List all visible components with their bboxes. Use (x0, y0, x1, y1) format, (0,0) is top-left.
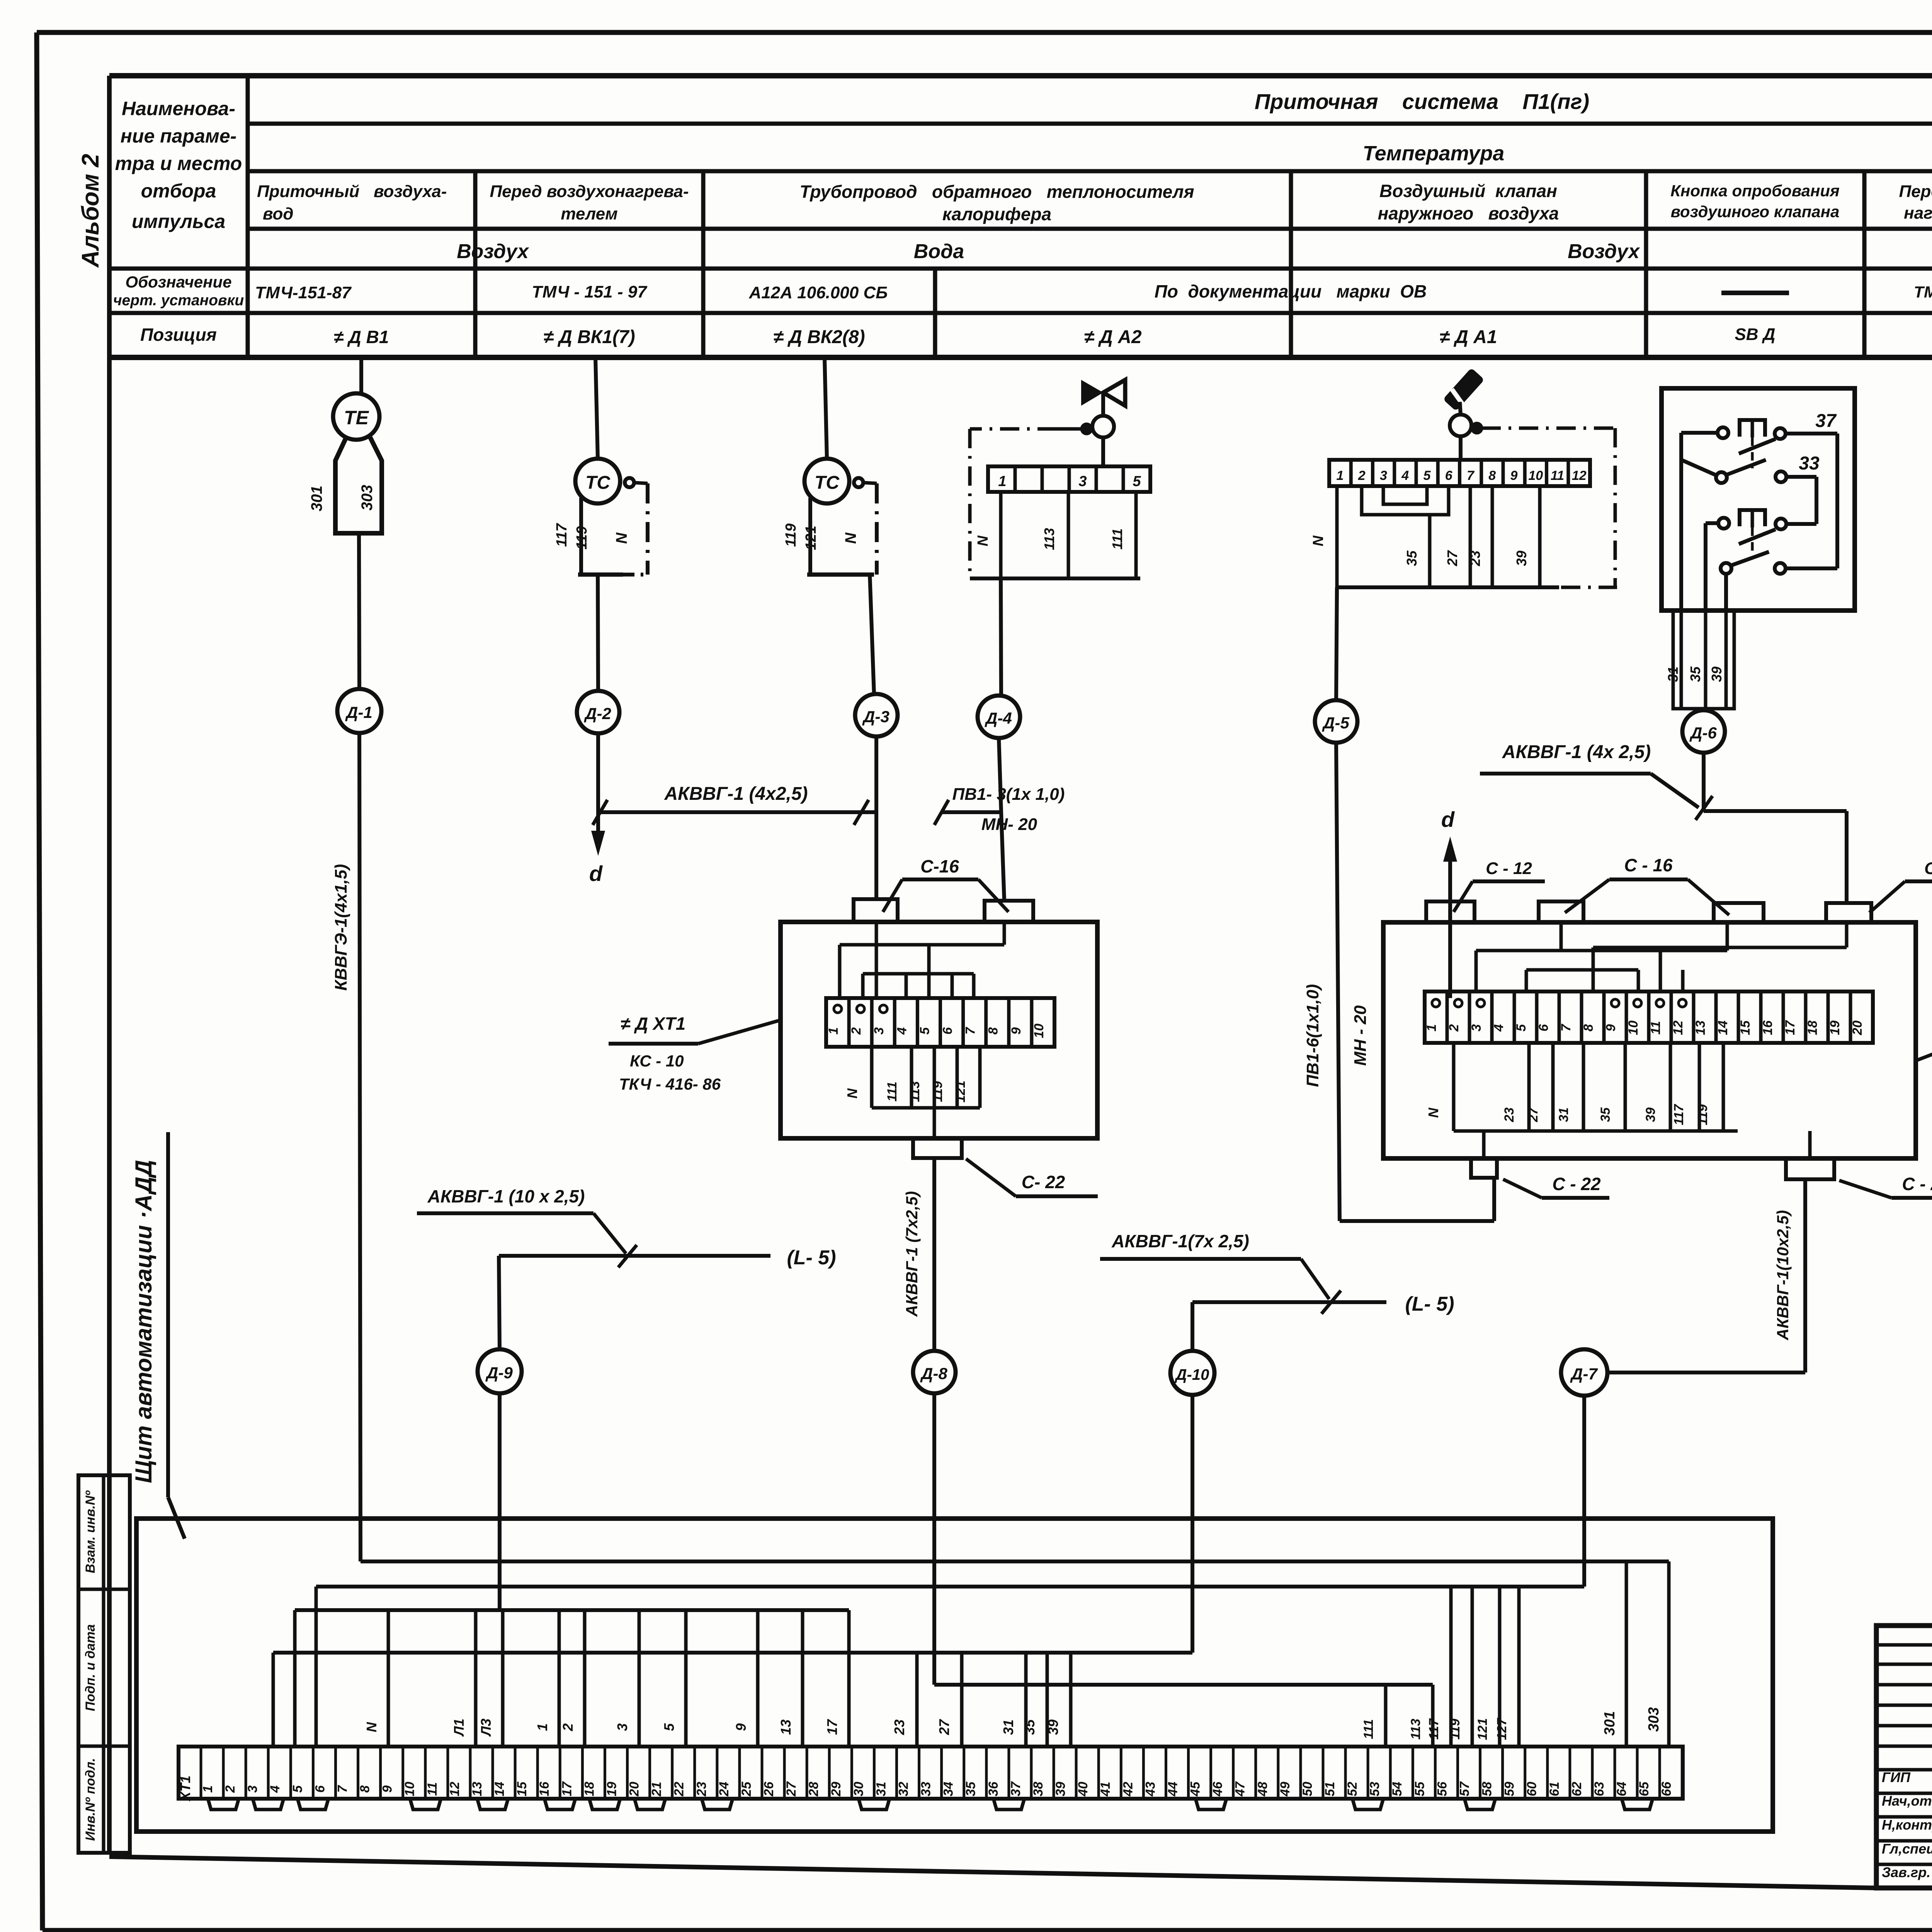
seal D-1 (337, 689, 381, 733)
svg-text:10: 10 (1032, 1024, 1046, 1038)
svg-text:59: 59 (1502, 1782, 1517, 1796)
label C-16 (1565, 855, 1729, 915)
svg-text:46: 46 (1211, 1781, 1225, 1797)
table column headers (257, 177, 1932, 225)
TC2 N line (807, 478, 877, 575)
svg-text:47: 47 (1233, 1781, 1248, 1797)
svg-text:ТМЧ-151-87: ТМЧ-151-87 (255, 283, 352, 302)
svg-text:13: 13 (470, 1782, 485, 1796)
svg-text:10: 10 (1626, 1020, 1641, 1035)
svg-text:39: 39 (1053, 1782, 1068, 1796)
svg-text:Д-2: Д-2 (584, 704, 611, 723)
svg-text:14: 14 (492, 1782, 507, 1796)
svg-text:27: 27 (1526, 1107, 1541, 1122)
svg-text:Д-6: Д-6 (1689, 724, 1717, 742)
svg-text:нагревателем: нагревателем (1904, 204, 1932, 223)
svg-text:Л3: Л3 (478, 1719, 494, 1737)
table medium row (457, 240, 1932, 263)
svg-text:N: N (1310, 535, 1327, 546)
svg-text:N: N (364, 1722, 379, 1732)
svg-text:Зав.гр.: Зав.гр. (1882, 1864, 1930, 1880)
svg-text:23: 23 (891, 1719, 907, 1735)
wire D-5 strip to seal (1336, 587, 1337, 700)
seal D-10 (1170, 1351, 1214, 1395)
inner frame left line (107, 76, 112, 1855)
seal D-9 (478, 1349, 522, 1393)
svg-text:МН - 20: МН - 20 (1351, 1005, 1370, 1066)
svg-text:ПВ1-6(1х1,0): ПВ1-6(1х1,0) (1303, 984, 1322, 1087)
XT1 wires below terminals (844, 1047, 980, 1138)
svg-text:Кнопка опробования: Кнопка опробования (1670, 182, 1840, 200)
svg-text:50: 50 (1300, 1782, 1315, 1796)
svg-text:воздушного клапана: воздушного клапана (1671, 202, 1840, 221)
svg-text:отбора: отбора (141, 180, 216, 202)
svg-text:56: 56 (1435, 1781, 1449, 1796)
XT1 designation label (609, 1014, 781, 1093)
inner frame bottom line (109, 1857, 1876, 1888)
svg-text:20: 20 (1850, 1020, 1865, 1036)
svg-text:АКВВГ-1 (7х2,5): АКВВГ-1 (7х2,5) (903, 1191, 921, 1317)
cable AKVVG-1(10x2,5) label left (417, 1186, 637, 1267)
svg-text:53: 53 (1367, 1782, 1382, 1796)
svg-text:1: 1 (201, 1786, 215, 1793)
svg-text:ПВ1- 3(1х 1,0): ПВ1- 3(1х 1,0) (952, 785, 1065, 804)
svg-text:7: 7 (1467, 468, 1475, 483)
svg-text:119: 119 (574, 526, 590, 550)
svg-text:(L- 5): (L- 5) (1405, 1293, 1454, 1315)
junction box XT1 (781, 922, 1097, 1138)
svg-text:Д-5: Д-5 (1322, 714, 1349, 732)
svg-text:23: 23 (694, 1782, 709, 1797)
XT1 internal jumpers (840, 922, 1004, 998)
svg-text:8: 8 (358, 1785, 372, 1793)
svg-text:30: 30 (851, 1782, 866, 1796)
wire bus D-9 (295, 1394, 849, 1747)
svg-text:3: 3 (1380, 468, 1387, 483)
svg-text:301: 301 (1602, 1711, 1618, 1735)
dash-dot boundary D-4 (970, 424, 1091, 578)
seal D-6 (1682, 710, 1725, 753)
svg-text:9: 9 (380, 1785, 395, 1793)
svg-text:31: 31 (874, 1782, 888, 1796)
damper drive flag (1443, 368, 1485, 415)
svg-text:39: 39 (1709, 667, 1725, 682)
svg-text:41: 41 (1098, 1782, 1113, 1797)
svg-text:58: 58 (1480, 1782, 1495, 1796)
cable AKVVG-1(7x2,5) label D-10 (1100, 1231, 1341, 1314)
svg-text:1: 1 (826, 1027, 841, 1035)
svg-text:20: 20 (627, 1782, 642, 1797)
valve symbol D-4 (1081, 380, 1125, 416)
valve actuator circle (1092, 416, 1114, 437)
svg-text:23: 23 (1467, 551, 1483, 566)
svg-text:КВВГЭ-1(4х1,5): КВВГЭ-1(4х1,5) (332, 864, 350, 991)
wire bus D-1 (301/303) (361, 1561, 1669, 1747)
wire D-6 to XT2 (1704, 753, 1847, 901)
lower push contact (1718, 510, 1786, 558)
cable line PV1-3 (934, 785, 1065, 834)
push-button box (1662, 388, 1855, 611)
svg-text:37: 37 (1815, 411, 1837, 431)
svg-text:1: 1 (1337, 468, 1344, 483)
svg-text:2: 2 (223, 1785, 238, 1793)
svg-text:26: 26 (762, 1781, 776, 1797)
D-5 strip wires down (1310, 486, 1559, 587)
svg-text:113: 113 (908, 1081, 922, 1102)
svg-text:Щит автоматизации ·АДД: Щит автоматизации ·АДД (131, 1160, 156, 1483)
svg-text:121: 121 (953, 1081, 968, 1103)
svg-text:29: 29 (829, 1782, 844, 1797)
wire TC1 to D-2 (598, 575, 598, 691)
cable AKVVG-1(4x2,5) to D-6 (1480, 742, 1713, 820)
svg-text:19: 19 (1828, 1020, 1842, 1035)
title block signature grid (1876, 1626, 1932, 1888)
wire from table to TE (359, 357, 363, 394)
wire D-4 to XT1 (999, 739, 1004, 900)
svg-text:35: 35 (964, 1781, 978, 1796)
svg-text:≠ Д ВК1(7): ≠ Д ВК1(7) (543, 327, 635, 347)
svg-text:Позиция: Позиция (140, 325, 217, 345)
svg-text:27: 27 (1444, 550, 1460, 566)
table installation-drawing row (255, 281, 1932, 302)
svg-text:301: 301 (308, 486, 325, 512)
svg-text:16: 16 (537, 1781, 552, 1796)
svg-text:7: 7 (963, 1026, 978, 1034)
wire bus D-10 (273, 1395, 1192, 1747)
svg-text:ТС: ТС (815, 473, 840, 493)
svg-text:23: 23 (1502, 1107, 1517, 1122)
svg-text:33: 33 (919, 1782, 934, 1796)
svg-text:119: 119 (930, 1081, 945, 1102)
svg-text:127: 127 (1495, 1718, 1509, 1740)
XT2 designation label (1916, 996, 1932, 1076)
svg-text:С- 22: С- 22 (1022, 1172, 1065, 1192)
XT2 internal jumpers (1476, 922, 1847, 992)
svg-text:5: 5 (917, 1027, 932, 1034)
wire D-3 to box XT1 (874, 736, 878, 900)
svg-text:43: 43 (1143, 1782, 1158, 1797)
svg-text:Наименова-: Наименова- (122, 98, 235, 119)
svg-text:119: 119 (1448, 1719, 1463, 1740)
svg-text:2: 2 (1358, 468, 1366, 483)
svg-text:С - 12: С - 12 (1924, 859, 1932, 878)
svg-text:14: 14 (1716, 1020, 1730, 1035)
svg-text:117: 117 (1672, 1104, 1686, 1125)
svg-text:тра и место: тра и место (115, 153, 242, 174)
svg-text:3: 3 (1469, 1024, 1484, 1031)
svg-text:25: 25 (739, 1781, 754, 1797)
svg-text:28: 28 (806, 1782, 821, 1797)
cable line AKVVG-1(4x2,5) (593, 784, 875, 825)
svg-text:38: 38 (1031, 1782, 1046, 1796)
sensor TC1 (575, 459, 620, 503)
svg-text:N: N (844, 1088, 860, 1099)
svg-text:С-16: С-16 (920, 856, 959, 876)
svg-text:(L- 5): (L- 5) (787, 1247, 836, 1269)
svg-text:SВ Д: SВ Д (1735, 325, 1775, 344)
svg-text:3: 3 (872, 1027, 886, 1034)
XT2 bottom glands C-22 (1471, 1158, 1932, 1198)
svg-text:ТЕ: ТЕ (344, 407, 369, 429)
svg-text:39: 39 (1045, 1719, 1061, 1735)
svg-text:телем: телем (561, 204, 617, 223)
svg-text:1: 1 (1424, 1024, 1439, 1032)
svg-text:Нач,отд.: Нач,отд. (1882, 1793, 1932, 1809)
d marker arrow into XT2 (1441, 807, 1457, 998)
svg-text:31: 31 (1000, 1719, 1016, 1735)
svg-text:37: 37 (1009, 1781, 1023, 1796)
svg-text:49: 49 (1278, 1782, 1293, 1797)
svg-text:17: 17 (1783, 1020, 1798, 1035)
wire bus D-8 (934, 1394, 1433, 1747)
svg-text:Гл,спец,: Гл,спец, (1882, 1841, 1932, 1857)
svg-text:6: 6 (1445, 468, 1453, 483)
(L-5) line 1 (499, 1247, 836, 1269)
svg-text:N: N (1425, 1107, 1441, 1118)
label C-12 left (1454, 859, 1545, 912)
TC2 sensor wires (783, 498, 819, 575)
svg-text:С - 12: С - 12 (1486, 859, 1532, 878)
TC1 N line (578, 478, 648, 575)
svg-text:44: 44 (1165, 1782, 1180, 1797)
svg-text:16: 16 (1760, 1020, 1775, 1035)
svg-text:4: 4 (268, 1785, 282, 1793)
svg-text:ТМЧ - 142- 87: ТМЧ - 142- 87 (1914, 283, 1932, 301)
svg-text:15: 15 (515, 1781, 529, 1796)
svg-text:Температура: Температура (1363, 142, 1505, 165)
seal D-2 (577, 691, 619, 733)
seal D-3 (855, 694, 898, 736)
svg-text:11: 11 (425, 1782, 440, 1796)
svg-text:21: 21 (650, 1782, 664, 1797)
svg-text:42: 42 (1121, 1782, 1135, 1797)
svg-text:d: d (1441, 807, 1455, 832)
wire from table to TC1 (595, 357, 598, 459)
svg-text:2: 2 (849, 1027, 864, 1035)
svg-text:Подп. и дата: Подп. и дата (83, 1624, 98, 1711)
svg-text:ТКЧ - 416- 86: ТКЧ - 416- 86 (619, 1075, 721, 1093)
svg-text:Приточная система П1(пг): Приточная система П1(пг) (1255, 89, 1589, 114)
sensor TE (333, 393, 379, 440)
D-4 strip wires down (970, 492, 1140, 578)
svg-text:45: 45 (1188, 1781, 1203, 1797)
svg-text:18: 18 (1805, 1020, 1820, 1035)
svg-text:≠ Д В1: ≠ Д В1 (334, 327, 389, 347)
svg-text:импульса: импульса (132, 211, 225, 232)
sensor TC2 (804, 459, 849, 503)
svg-text:1: 1 (534, 1723, 550, 1731)
terminal strip D-4 (988, 437, 1150, 492)
title block frame (1876, 1626, 1932, 1888)
svg-text:Приточный воздуха-: Приточный воздуха- (257, 182, 447, 201)
wires 31 35 39 out of button box (1665, 611, 1734, 709)
svg-text:Д-8: Д-8 (920, 1364, 947, 1383)
svg-text:119: 119 (783, 524, 799, 547)
label C-12 right (1869, 859, 1932, 913)
svg-text:33: 33 (1799, 453, 1820, 474)
wire TE to D-1 (359, 532, 359, 689)
svg-text:13: 13 (778, 1719, 794, 1735)
svg-text:31: 31 (1665, 667, 1681, 682)
svg-text:ние параме-: ние параме- (121, 125, 237, 147)
svg-text:32: 32 (896, 1782, 911, 1796)
svg-text:≠ Д ХТ1: ≠ Д ХТ1 (621, 1014, 685, 1034)
svg-text:ХТ1: ХТ1 (177, 1776, 193, 1802)
svg-text:111: 111 (1109, 529, 1125, 550)
svg-text:9: 9 (1009, 1027, 1024, 1034)
table position row (334, 325, 1932, 349)
svg-text:39: 39 (1643, 1107, 1658, 1122)
svg-text:d: d (589, 861, 603, 886)
svg-text:Инв.Nº подл.: Инв.Nº подл. (83, 1758, 98, 1841)
TC1 sensor wires (554, 498, 590, 575)
svg-text:3: 3 (245, 1785, 260, 1793)
svg-text:Д-4: Д-4 (985, 709, 1012, 727)
svg-text:12: 12 (1572, 468, 1587, 483)
svg-text:10: 10 (1528, 468, 1543, 483)
wire D-5 to XT2 bottom / PV1-6 (1303, 743, 1494, 1221)
seal D-5 (1315, 700, 1357, 743)
svg-text:8: 8 (1488, 468, 1496, 483)
svg-text:8: 8 (1581, 1024, 1596, 1031)
svg-text:11: 11 (1648, 1021, 1663, 1034)
seal D-7 (1561, 1349, 1607, 1396)
wire D-4 strip to seal (1001, 578, 1001, 696)
svg-text:N: N (975, 535, 991, 546)
svg-text:ГИП: ГИП (1882, 1769, 1911, 1785)
svg-text:4: 4 (1401, 468, 1409, 483)
svg-text:наружного воздуха: наружного воздуха (1378, 203, 1559, 223)
svg-text:48: 48 (1255, 1782, 1270, 1797)
svg-text:ТМЧ - 151 - 97: ТМЧ - 151 - 97 (532, 282, 648, 301)
svg-text:АКВВГ-1 (10 х 2,5): АКВВГ-1 (10 х 2,5) (427, 1186, 585, 1206)
XT2 terminal strip 1-20 (1424, 992, 1873, 1043)
svg-text:35: 35 (1598, 1107, 1613, 1122)
button box internal wires (1681, 433, 1837, 611)
album label (77, 154, 104, 268)
wire TC2 to D-3 (870, 575, 874, 694)
svg-text:Д-7: Д-7 (1570, 1365, 1598, 1383)
svg-text:Д-1: Д-1 (345, 703, 372, 721)
svg-text:18: 18 (582, 1782, 597, 1796)
svg-text:МН- 20: МН- 20 (981, 815, 1037, 834)
svg-text:С - 22: С - 22 (1552, 1174, 1601, 1194)
svg-text:15: 15 (1738, 1020, 1753, 1035)
svg-text:55: 55 (1412, 1781, 1427, 1796)
svg-text:11: 11 (1551, 468, 1564, 483)
svg-text:19: 19 (604, 1782, 619, 1796)
svg-text:С - 22: С - 22 (1902, 1174, 1932, 1194)
bottom contact (1721, 552, 1786, 574)
wire AKVVG-1(10x2,5) from XT2 to D-7 (1608, 1179, 1805, 1372)
svg-text:61: 61 (1547, 1782, 1562, 1796)
svg-text:24: 24 (717, 1782, 731, 1797)
svg-text:Перед воздухонагрева-: Перед воздухонагрева- (490, 182, 689, 201)
svg-text:вод: вод (263, 204, 294, 223)
svg-text:2: 2 (560, 1723, 576, 1731)
svg-text:117: 117 (554, 523, 570, 547)
svg-text:≠ Д ВК2(8): ≠ Д ВК2(8) (773, 327, 865, 347)
svg-text:40: 40 (1076, 1782, 1090, 1797)
wire D-1 down / cable KVVGE-1(4x1.5) (332, 733, 361, 1561)
svg-text:АКВВГ-1 (4х 2,5): АКВВГ-1 (4х 2,5) (1502, 742, 1651, 762)
svg-text:≠ Д А2: ≠ Д А2 (1084, 327, 1141, 347)
svg-text:Л1: Л1 (451, 1719, 467, 1737)
svg-text:По документации марки ОВ: По документации марки ОВ (1155, 281, 1427, 301)
svg-text:63: 63 (1592, 1782, 1607, 1796)
svg-text:N: N (842, 532, 859, 544)
(L-5) line 2 (1192, 1293, 1454, 1315)
table row: system title (1255, 89, 1589, 114)
svg-text:7: 7 (335, 1784, 350, 1793)
svg-text:АКВВГ-1(10х2,5): АКВВГ-1(10х2,5) (1774, 1210, 1792, 1340)
svg-text:12: 12 (1671, 1020, 1685, 1035)
wire D-2 down with arrow to d (589, 733, 605, 886)
svg-text:121: 121 (1475, 1718, 1490, 1740)
button contact 37 (1718, 411, 1837, 468)
svg-text:35: 35 (1687, 666, 1703, 682)
svg-text:36: 36 (986, 1781, 1001, 1796)
svg-text:34: 34 (941, 1782, 956, 1796)
parameter table grid (109, 76, 1932, 357)
svg-text:5: 5 (661, 1723, 677, 1731)
svg-text:111: 111 (885, 1082, 900, 1102)
svg-text:60: 60 (1525, 1782, 1539, 1796)
svg-text:31: 31 (1556, 1107, 1571, 1122)
svg-text:Альбом 2: Альбом 2 (77, 154, 104, 268)
svg-text:3: 3 (614, 1723, 630, 1731)
svg-text:5: 5 (1514, 1024, 1529, 1031)
svg-text:Воздушный клапан: Воздушный клапан (1379, 181, 1557, 201)
svg-text:27: 27 (784, 1781, 799, 1797)
svg-text:8: 8 (986, 1027, 1001, 1034)
svg-text:Воздух: Воздух (1568, 240, 1640, 263)
margin stamp boxes (78, 1475, 130, 1853)
svg-text:5: 5 (290, 1785, 305, 1793)
svg-text:303: 303 (359, 485, 376, 511)
svg-text:КС - 10: КС - 10 (630, 1052, 684, 1070)
svg-text:113: 113 (1408, 1719, 1423, 1740)
table row: Temperatura (1363, 142, 1505, 165)
TE probe pocket (308, 437, 382, 533)
svg-text:4: 4 (895, 1027, 909, 1035)
automation panel box (136, 1519, 1773, 1832)
table left header column (113, 98, 244, 345)
svg-text:66: 66 (1659, 1781, 1674, 1796)
svg-text:Перед воздуха-: Перед воздуха- (1899, 182, 1932, 201)
svg-text:Д-10: Д-10 (1175, 1366, 1209, 1383)
title block texts (1882, 1646, 1932, 1890)
svg-text:13: 13 (1693, 1020, 1708, 1035)
terminal strip D-5 (1-12) (1329, 436, 1590, 486)
svg-text:35: 35 (1404, 550, 1420, 566)
svg-text:Н,контр: Н,контр (1882, 1817, 1932, 1833)
XT1 terminal strip 1-10 (826, 998, 1054, 1047)
svg-text:54: 54 (1390, 1782, 1405, 1796)
svg-text:9: 9 (1604, 1024, 1618, 1031)
svg-text:64: 64 (1614, 1782, 1629, 1796)
svg-text:17: 17 (560, 1781, 574, 1796)
svg-text:калорифера: калорифера (942, 204, 1051, 224)
button contact 33 (1716, 453, 1820, 483)
wire to D-9 (499, 1256, 500, 1349)
svg-text:6: 6 (1536, 1024, 1551, 1031)
svg-text:1: 1 (998, 473, 1006, 490)
svg-text:10: 10 (403, 1782, 417, 1796)
svg-text:12: 12 (447, 1782, 462, 1796)
svg-text:5: 5 (1133, 473, 1141, 490)
svg-text:57: 57 (1457, 1781, 1472, 1796)
